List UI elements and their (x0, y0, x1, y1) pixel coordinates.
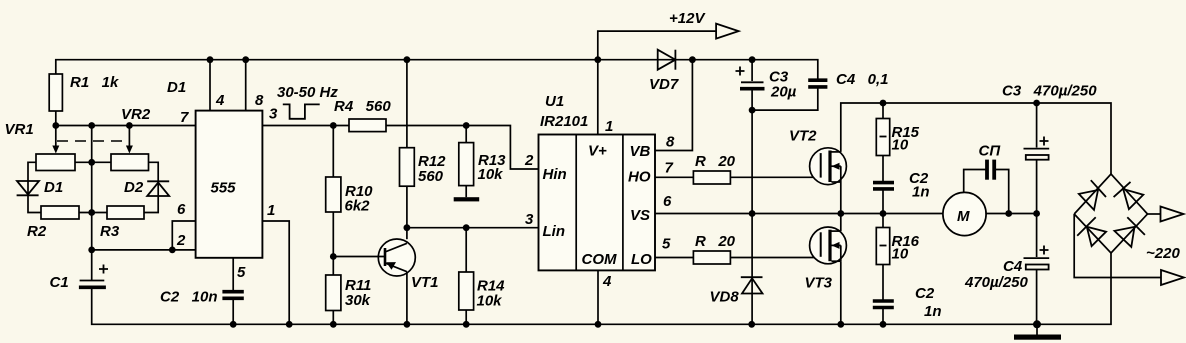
svg-text:2: 2 (524, 152, 534, 169)
wire R15 top (882, 103, 884, 119)
waveform symbol (283, 104, 320, 118)
svg-text:~220: ~220 (1146, 245, 1180, 262)
node R13 top (463, 122, 470, 129)
wire bottom ground rail (92, 253, 1111, 324)
capacitor C2 1n top (873, 181, 894, 185)
node pots junction (88, 159, 95, 166)
svg-text:C1: C1 (50, 274, 69, 291)
wire R11 bottom (332, 311, 334, 325)
svg-text:C4 0,1: C4 0,1 (836, 71, 889, 88)
node R16 top (880, 210, 887, 217)
resistor R11 (326, 275, 341, 311)
capacitor C1 (80, 280, 105, 282)
svg-text:4: 4 (602, 273, 612, 290)
svg-text:6k2: 6k2 (345, 198, 371, 215)
svg-text:8: 8 (255, 92, 264, 109)
node VR1 wiper (52, 122, 59, 129)
resistor R top gate (693, 171, 730, 184)
wire VS bootstrap vertical (751, 110, 753, 213)
capacitor C3 20u (751, 60, 753, 81)
bridge diode bottom-left (1087, 227, 1106, 246)
wire Lin line (407, 227, 539, 229)
transistor VT3 MOSFET (810, 227, 847, 264)
node R10 branch (330, 122, 337, 129)
svg-text:560: 560 (418, 168, 444, 185)
node R14 top (463, 224, 470, 231)
capacitor CP snubber (964, 170, 987, 193)
op-amp U1 555 IC box (196, 111, 263, 258)
svg-text:4: 4 (215, 92, 225, 109)
resistor R13 (459, 143, 474, 186)
svg-text:10k: 10k (478, 166, 504, 183)
svg-text:LO: LO (631, 251, 652, 268)
resistor R15 (876, 119, 889, 156)
wire pin 8 (245, 60, 247, 111)
node C3 C4 junction (1033, 210, 1040, 217)
node VR2 wiper (126, 122, 133, 129)
svg-text:555: 555 (211, 180, 237, 197)
capacitor C2 1n bottom (873, 299, 894, 303)
svg-text:D1: D1 (44, 179, 63, 196)
wire R4 to Hin corner (386, 126, 539, 170)
diode VD8 (751, 214, 753, 325)
wire pin 4 (209, 60, 211, 111)
svg-text:10k: 10k (477, 293, 503, 310)
wire AC left terminal (1074, 214, 1161, 278)
svg-text:1: 1 (605, 118, 613, 135)
wire pin 3 to R4 (262, 125, 349, 127)
svg-text:1n: 1n (924, 303, 942, 320)
wire R13 top (465, 126, 467, 143)
svg-text:5: 5 (237, 264, 246, 281)
wire VB pin8 (655, 60, 692, 151)
bridge diode bottom-right (1114, 227, 1134, 247)
svg-text:7: 7 (180, 109, 189, 126)
svg-text:D2: D2 (124, 179, 144, 196)
wire gate VT2 (730, 176, 820, 178)
wiper arrow VR1 (55, 126, 57, 147)
wire top rail +12V bus (56, 60, 818, 79)
wire AC right terminal (1148, 213, 1161, 215)
wire pin 5 down (232, 258, 234, 290)
bridge diode top-right (1123, 189, 1143, 209)
wiper arrow VR2 (128, 126, 130, 147)
wire pin1 V+ (597, 60, 599, 135)
svg-text:VR2: VR2 (121, 106, 151, 123)
svg-text:C2 10n: C2 10n (160, 289, 218, 306)
diode D1 (17, 181, 39, 195)
wire R12 from top rail (406, 60, 408, 148)
wire pin 1 to ground (262, 221, 289, 324)
svg-text:3: 3 (269, 106, 278, 123)
svg-text:30-50 Hz: 30-50 Hz (277, 84, 338, 101)
svg-text:Hin: Hin (543, 166, 567, 183)
svg-text:10: 10 (892, 137, 909, 154)
svg-text:6: 6 (663, 193, 672, 210)
svg-text:R4 560: R4 560 (334, 98, 391, 115)
inner divider right (622, 135, 624, 271)
node VD7 cathode junction (689, 56, 696, 63)
wire LO pin5 (655, 257, 693, 259)
svg-text:VS: VS (630, 207, 650, 224)
svg-text:U1: U1 (545, 93, 564, 110)
node R12 top (404, 56, 411, 63)
node COM ground (595, 321, 602, 328)
node C2-10n ground (230, 321, 237, 328)
transistor Q1 VT1 (378, 239, 415, 276)
ground symbol under R13 (454, 197, 480, 201)
resistor R4 (349, 119, 386, 132)
wire R12 bottom to VT1 collector (406, 186, 408, 239)
node VD8 top (749, 210, 756, 217)
svg-text:1: 1 (267, 202, 275, 219)
svg-text:HO: HO (628, 169, 651, 186)
wire VT1 emitter to ground (406, 272, 408, 325)
node C1 top (88, 247, 95, 254)
wire VT3 drain up (840, 214, 842, 232)
wire R15 to C2 (882, 156, 884, 183)
capacitor C3 470u/250 (1036, 103, 1038, 148)
node R2 R3 junction (88, 209, 95, 216)
wire gate VT3 (730, 257, 820, 259)
node R14 ground (463, 321, 470, 328)
node DC+ rail R15 (880, 100, 887, 107)
node R11 ground (330, 321, 337, 328)
svg-text:20µ: 20µ (770, 84, 797, 101)
wire R10 bottom to R11 (332, 212, 334, 275)
wire VR1-VR2 junction (75, 161, 111, 163)
node pin1 ground (286, 321, 293, 328)
wire motor right to C3C4 node (985, 213, 1036, 215)
wire VT3 source down (840, 261, 842, 324)
resistor R3 (107, 206, 144, 219)
svg-text:D1: D1 (167, 79, 186, 96)
svg-text:R3: R3 (100, 223, 120, 240)
svg-text:R 20: R 20 (695, 153, 736, 170)
node C4 ground (1033, 320, 1041, 328)
wire R16 top (882, 214, 884, 228)
node VT1 emitter ground (404, 321, 411, 328)
node C2 ground (880, 321, 887, 328)
connector arrow AC1 (1161, 207, 1184, 222)
svg-text:VB: VB (630, 143, 651, 160)
plus sign C3 (736, 67, 745, 76)
node DC+ rail C3-470 (1033, 100, 1040, 107)
node C3 top (749, 56, 756, 63)
node Lin line branch (404, 224, 411, 231)
plus sign C3-470 (1040, 137, 1049, 146)
resistor R1 (49, 74, 62, 111)
wire HO pin7 (655, 176, 693, 178)
svg-text:2: 2 (176, 232, 186, 249)
ground symbol bottom (1036, 324, 1038, 334)
diode VD7 (658, 50, 676, 70)
wire +12V branch (598, 31, 716, 60)
svg-text:COM: COM (582, 251, 618, 268)
wire VR node line to 555 pin7 (56, 125, 196, 127)
capacitor C2 10n (222, 290, 243, 294)
svg-text:VT3: VT3 (805, 275, 833, 292)
wire R14 bottom (465, 310, 467, 324)
wire R1 bottom (55, 111, 57, 126)
resistor R16 (876, 228, 889, 265)
svg-text:IR2101: IR2101 (540, 113, 588, 130)
svg-text:M: M (957, 208, 970, 225)
wire R13 bottom stub (465, 186, 467, 198)
connector arrow +12V (716, 24, 739, 39)
wire R14 top (465, 228, 467, 272)
plus sign C4-470 (1040, 246, 1049, 255)
wire VS pin6 line (655, 213, 943, 215)
svg-text:1n: 1n (912, 184, 930, 201)
IC U1 IR2101 box (539, 135, 656, 271)
wire pin2 line from C1 node (92, 249, 196, 251)
resistor R2 (41, 206, 79, 219)
svg-text:C2: C2 (915, 285, 935, 302)
motor M (943, 192, 986, 235)
bridge rectifier frame (1074, 174, 1147, 253)
transistor VT2 MOSFET (810, 148, 847, 185)
resistor R bottom gate (693, 251, 730, 264)
diode D2 (147, 183, 169, 197)
dashed gang link VR1-VR2 (57, 140, 128, 142)
node pin6 branch (169, 247, 176, 254)
svg-text:6: 6 (177, 201, 186, 218)
wire VT1 base (333, 256, 385, 258)
svg-text:R2: R2 (27, 223, 47, 240)
potentiometer VR1 (36, 154, 75, 171)
node VT2 source (837, 210, 844, 217)
svg-text:VT1: VT1 (411, 274, 439, 291)
svg-text:C3 470µ/250: C3 470µ/250 (1002, 83, 1097, 100)
svg-text:7: 7 (665, 160, 674, 177)
node pin4 top (207, 56, 214, 63)
connector arrow AC2 (1161, 270, 1184, 285)
svg-text:C4: C4 (1003, 258, 1023, 275)
inner divider left (575, 135, 577, 271)
wire VT2 source down (840, 182, 842, 214)
svg-text:5: 5 (662, 236, 671, 253)
wire R10 branch down (332, 126, 334, 178)
capacitor C4 0,1 (808, 78, 827, 82)
node VD8 ground (748, 321, 755, 328)
wire right loop VR2 to R3 (144, 162, 158, 212)
svg-text:Lin: Lin (543, 223, 566, 240)
wire pin6 branch (172, 221, 195, 250)
wire R2 R3 junction (79, 212, 107, 214)
capacitor C4 470u/250 (1036, 214, 1038, 258)
node mid vertical (88, 122, 95, 129)
svg-text:470µ/250: 470µ/250 (964, 274, 1029, 291)
node C3 bottom (749, 107, 756, 114)
node VT1 base branch (330, 253, 337, 260)
node pin8 top (242, 56, 249, 63)
svg-text:+12V: +12V (669, 10, 706, 27)
wire VT2 drain up (841, 103, 1111, 174)
svg-text:R1 1k: R1 1k (70, 74, 119, 91)
plus sign C1 (99, 265, 108, 274)
svg-text:8: 8 (666, 134, 675, 151)
svg-text:VR1: VR1 (5, 121, 34, 138)
svg-text:VD7: VD7 (649, 76, 679, 93)
wire mid vertical (91, 126, 93, 281)
resistor R10 (326, 177, 341, 212)
wire C3 bottom to C4 (752, 87, 818, 110)
node CP right (1005, 210, 1012, 217)
svg-text:R 20: R 20 (695, 233, 736, 250)
resistor R12 (400, 148, 415, 187)
resistor R14 (459, 272, 474, 310)
bridge diode top-left (1079, 190, 1098, 210)
svg-text:3: 3 (525, 211, 534, 228)
node VT3 source ground (837, 321, 844, 328)
node +12V junction (594, 56, 601, 63)
svg-text:30k: 30k (345, 292, 371, 309)
wire R16 to C2 (882, 265, 884, 301)
wire pin4 COM (597, 270, 599, 324)
svg-text:СП: СП (979, 143, 1002, 160)
svg-text:VT2: VT2 (789, 128, 817, 145)
svg-text:VD8: VD8 (710, 289, 740, 306)
potentiometer VR2 (111, 154, 149, 171)
svg-text:V+: V+ (588, 143, 607, 160)
wire left loop VR1 to R2 (28, 162, 41, 212)
svg-text:10: 10 (892, 246, 909, 263)
